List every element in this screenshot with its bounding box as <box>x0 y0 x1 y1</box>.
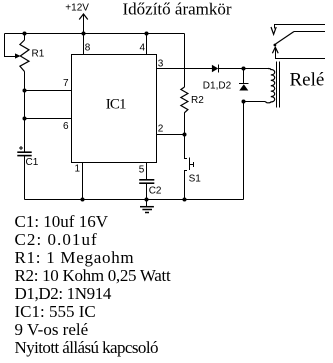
+12V arrowhead <box>79 14 88 20</box>
node +12V pin8 junction <box>82 32 86 36</box>
wire rail corner down to R2 <box>184 34 186 88</box>
op-amp IC1 box <box>72 55 157 163</box>
wire pin4 stub <box>146 34 148 55</box>
wire R1 wiper loop left <box>5 34 16 57</box>
wire pin7 <box>25 90 72 92</box>
relay core <box>276 62 278 108</box>
wire pin3 <box>157 68 212 70</box>
svg-text:C2: C2 <box>149 186 162 197</box>
switch S1 upper wire <box>185 135 188 159</box>
ground bars <box>140 206 154 208</box>
svg-text:5: 5 <box>139 164 145 175</box>
wire D1 to relay coil <box>219 68 269 70</box>
wire C1 to ground rail <box>24 156 26 200</box>
resistor R2 zigzag <box>181 87 188 113</box>
svg-text:R2: 10 Kohm 0,25 Watt: R2: 10 Kohm 0,25 Watt <box>15 266 171 285</box>
svg-text:R1: R1 <box>32 49 45 60</box>
relay contact NC line <box>275 25 326 29</box>
relay contact NC arrowhead <box>271 27 276 34</box>
wire +12V arrow shaft <box>83 14 85 34</box>
node pin2 junction <box>183 133 187 137</box>
svg-text:8: 8 <box>85 43 91 54</box>
svg-text:C1: 10uf 16V: C1: 10uf 16V <box>15 212 109 231</box>
node pin6 junction <box>23 117 27 121</box>
svg-text:Relé: Relé <box>290 70 325 91</box>
wire R2 to pin2 junction <box>184 113 186 135</box>
node R1 top junction <box>23 32 27 36</box>
wire D2 to D1 junction <box>243 69 245 84</box>
node pin7 junction <box>23 89 27 93</box>
wire pin2 <box>157 134 185 136</box>
svg-text:R1: 1 Megaohm: R1: 1 Megaohm <box>15 248 135 267</box>
svg-text:4: 4 <box>140 43 146 54</box>
wire R1 to C1 <box>24 72 26 153</box>
wire pin6 <box>25 118 72 120</box>
switch S1 contact bar <box>189 158 191 171</box>
relay coil <box>265 69 275 103</box>
svg-text:+12V: +12V <box>65 3 89 14</box>
node S1 ground junction <box>183 198 187 202</box>
wire top +12V rail <box>5 33 185 35</box>
node C2 ground junction <box>145 198 149 202</box>
node relay pivot <box>274 44 277 47</box>
relay contact arm arrowhead <box>272 47 278 53</box>
diode D2 triangle <box>239 84 248 90</box>
svg-text:IC1: IC1 <box>106 96 126 112</box>
node D2 coil junction <box>242 100 246 104</box>
resistor R1 zigzag <box>20 40 29 72</box>
ground stub <box>146 200 148 207</box>
svg-text:9 V-os relé: 9 V-os relé <box>15 320 89 339</box>
diode D2 cathode bar <box>239 83 249 85</box>
wire pin1 stub <box>82 163 84 200</box>
diode D1 cathode bar <box>218 65 220 73</box>
diode D1 triangle <box>212 65 218 72</box>
wire pin5 stub <box>146 163 148 180</box>
svg-text:S1: S1 <box>189 174 202 185</box>
svg-text:Időzítő áramkör: Időzítő áramkör <box>123 0 232 19</box>
switch S1 actuator <box>190 164 194 166</box>
svg-text:C2: 0.01uf: C2: 0.01uf <box>15 230 98 249</box>
capacitor C2 plates <box>139 179 154 181</box>
svg-text:IC1: 555 IC: IC1: 555 IC <box>15 302 96 321</box>
switch S1 lower wire <box>185 171 188 200</box>
wire pin8 stub <box>83 34 85 55</box>
capacitor C1 plus sign <box>19 147 23 149</box>
node D1 D2 junction <box>242 67 246 71</box>
relay contact arm diagonal <box>276 32 295 45</box>
svg-text:C1: C1 <box>26 157 39 168</box>
relay contact arm shaft <box>276 47 326 59</box>
node pin4 junction <box>145 32 149 36</box>
svg-text:2: 2 <box>158 124 164 135</box>
wire ground rail riser right <box>243 102 245 200</box>
svg-text:D1,D2: 1N914: D1,D2: 1N914 <box>15 284 112 303</box>
wire C2 to rail <box>146 184 148 200</box>
node pin1 junction <box>81 198 85 202</box>
resistor R1 wiper arrowhead <box>15 53 21 58</box>
relay contact NO line <box>294 31 325 33</box>
svg-text:R2: R2 <box>191 95 204 106</box>
svg-text:7: 7 <box>63 78 69 89</box>
svg-text:6: 6 <box>63 121 69 132</box>
wire R1 top stub <box>24 34 26 41</box>
svg-text:Nyitott állású kapcsoló: Nyitott állású kapcsoló <box>15 338 158 357</box>
svg-text:3: 3 <box>158 59 164 70</box>
capacitor C1 plates <box>17 151 31 153</box>
svg-text:1: 1 <box>75 163 81 174</box>
wire coil bottom <box>244 101 266 103</box>
svg-text:D1,D2: D1,D2 <box>203 81 232 92</box>
wire bottom ground rail <box>25 199 244 201</box>
